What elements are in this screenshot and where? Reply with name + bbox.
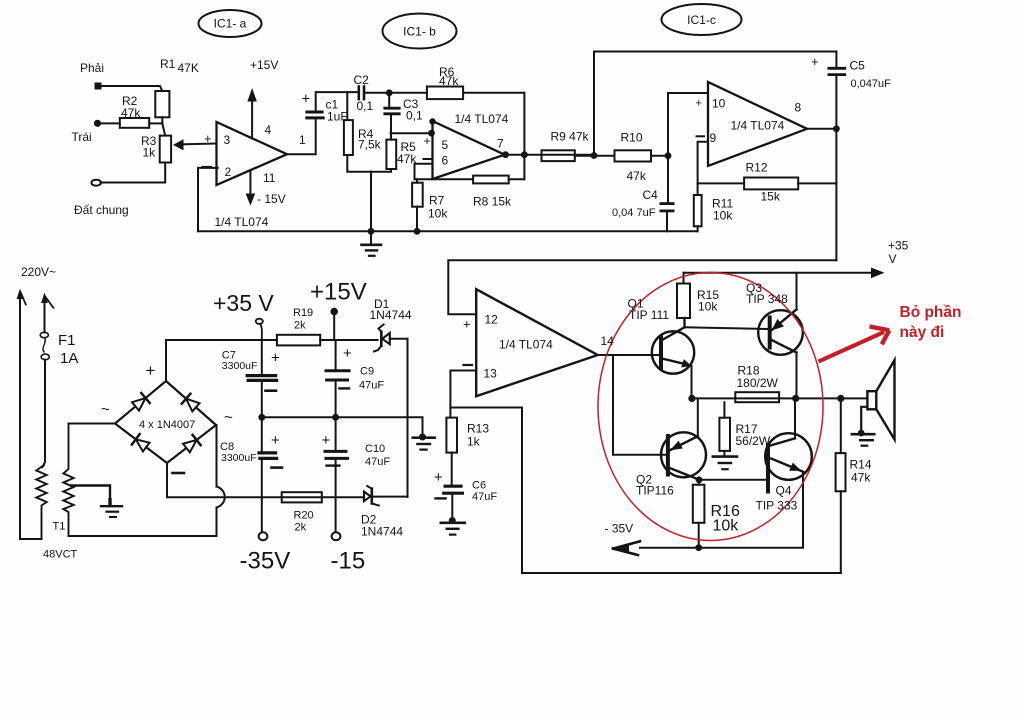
svg-text:10k: 10k <box>713 209 733 223</box>
svg-text:+: + <box>271 350 280 367</box>
svg-text:V: V <box>889 252 897 266</box>
svg-text:48VCT: 48VCT <box>43 549 78 561</box>
svg-text:180/2W: 180/2W <box>737 376 779 390</box>
svg-text:R1: R1 <box>160 57 176 71</box>
svg-text:T1: T1 <box>53 521 66 533</box>
svg-text:47uF: 47uF <box>472 491 497 503</box>
svg-text:10k: 10k <box>428 207 448 221</box>
svg-text:12: 12 <box>485 313 499 327</box>
svg-text:-35V: -35V <box>240 548 291 575</box>
svg-text:4: 4 <box>265 123 272 137</box>
svg-text:+: + <box>463 317 471 332</box>
svg-text:4 x 1N4007: 4 x 1N4007 <box>139 419 195 431</box>
svg-text:6: 6 <box>442 154 449 168</box>
svg-text:3: 3 <box>224 133 231 147</box>
svg-text:C9: C9 <box>360 366 374 378</box>
svg-text:- 35V: - 35V <box>605 522 634 536</box>
svg-text:47uF: 47uF <box>365 456 390 468</box>
svg-text:11: 11 <box>263 171 276 185</box>
svg-text:R20: R20 <box>294 510 314 522</box>
svg-text:1uF: 1uF <box>327 110 348 124</box>
svg-text:1k: 1k <box>467 435 481 449</box>
svg-text:9: 9 <box>710 131 717 145</box>
svg-text:1/4 TL074: 1/4 TL074 <box>215 215 269 229</box>
svg-text:Bỏ phần: Bỏ phần <box>900 304 962 321</box>
svg-text:R9 47k: R9 47k <box>551 130 590 144</box>
svg-text:-15: -15 <box>331 548 366 575</box>
svg-text:1A: 1A <box>60 350 78 367</box>
svg-text:13: 13 <box>484 367 498 381</box>
svg-text:TIP 333: TIP 333 <box>756 499 798 513</box>
svg-text:10k: 10k <box>698 300 718 314</box>
svg-text:IC1- b: IC1- b <box>403 25 436 39</box>
svg-text:+: + <box>322 432 331 449</box>
svg-text:+: + <box>204 131 212 146</box>
svg-text:47k: 47k <box>121 106 141 120</box>
svg-text:1/4 TL074: 1/4 TL074 <box>499 338 553 352</box>
svg-text:C6: C6 <box>472 480 486 492</box>
svg-text:C5: C5 <box>850 59 866 73</box>
svg-text:14: 14 <box>601 334 615 348</box>
svg-text:2: 2 <box>225 165 232 179</box>
svg-text:R12: R12 <box>746 161 768 175</box>
svg-text:C4: C4 <box>643 188 659 202</box>
svg-text:56/2W: 56/2W <box>736 434 771 448</box>
svg-text:+: + <box>302 91 311 108</box>
svg-text:7: 7 <box>497 137 504 151</box>
svg-text:1N4744: 1N4744 <box>361 525 403 539</box>
svg-text:C2: C2 <box>354 73 370 87</box>
svg-text:2k: 2k <box>295 522 307 534</box>
svg-text:F1: F1 <box>58 332 76 349</box>
svg-text:Phải: Phải <box>80 61 104 75</box>
svg-text:0,1: 0,1 <box>357 99 374 113</box>
svg-text:Trái: Trái <box>72 130 92 144</box>
svg-text:IC1-c: IC1-c <box>687 13 716 27</box>
svg-text:47k: 47k <box>439 74 459 88</box>
svg-text:R13: R13 <box>467 422 489 436</box>
svg-text:+: + <box>271 432 280 449</box>
svg-text:R19: R19 <box>293 307 313 319</box>
svg-text:8: 8 <box>795 101 802 115</box>
svg-text:+35 V: +35 V <box>213 290 274 316</box>
svg-text:3300uF: 3300uF <box>222 360 258 372</box>
svg-text:2k: 2k <box>294 320 306 332</box>
svg-text:+: + <box>434 469 443 486</box>
svg-text:47K: 47K <box>178 61 199 75</box>
svg-text:R8 15k: R8 15k <box>473 195 512 209</box>
svg-text:47k: 47k <box>851 471 871 485</box>
svg-text:15k: 15k <box>761 190 781 204</box>
svg-text:này đi: này đi <box>900 324 945 341</box>
svg-text:~: ~ <box>101 401 110 418</box>
svg-text:Đất chung: Đất chung <box>74 203 129 217</box>
svg-text:C10: C10 <box>365 443 385 455</box>
svg-text:1/4 TL074: 1/4 TL074 <box>455 112 509 126</box>
svg-text:TIP 348: TIP 348 <box>746 292 788 306</box>
svg-text:TIP116: TIP116 <box>636 484 674 498</box>
svg-text:~: ~ <box>224 409 233 426</box>
svg-text:0,04 7uF: 0,04 7uF <box>612 207 656 219</box>
svg-text:+: + <box>696 98 702 110</box>
svg-text:+: + <box>343 345 352 362</box>
svg-text:7,5k: 7,5k <box>358 138 382 152</box>
svg-text:+: + <box>146 361 156 380</box>
svg-text:+35: +35 <box>888 239 909 253</box>
svg-text:0,047uF: 0,047uF <box>851 78 892 90</box>
svg-text:+: + <box>811 54 819 69</box>
svg-text:1k: 1k <box>143 146 157 160</box>
svg-text:R14: R14 <box>850 458 872 472</box>
svg-text:47k: 47k <box>397 152 417 166</box>
svg-text:10: 10 <box>712 97 726 111</box>
svg-text:47uF: 47uF <box>359 380 384 392</box>
svg-text:1/4 TL074: 1/4 TL074 <box>731 119 785 133</box>
svg-text:10k: 10k <box>713 518 740 535</box>
svg-text:1: 1 <box>299 133 306 147</box>
svg-text:+: + <box>424 134 431 148</box>
svg-text:0,1: 0,1 <box>406 109 423 123</box>
svg-text:+15V: +15V <box>250 58 278 72</box>
svg-text:220V~: 220V~ <box>21 265 56 279</box>
svg-text:47k: 47k <box>627 169 647 183</box>
svg-text:+15V: +15V <box>310 279 367 306</box>
svg-text:- 15V: - 15V <box>257 192 286 206</box>
svg-text:R10: R10 <box>621 131 643 145</box>
svg-text:1N4744: 1N4744 <box>370 308 412 322</box>
svg-text:R7: R7 <box>429 194 445 208</box>
svg-text:IC1- a: IC1- a <box>214 17 247 31</box>
svg-text:5: 5 <box>442 138 449 152</box>
svg-text:3300uF: 3300uF <box>221 452 257 464</box>
svg-text:Q4: Q4 <box>776 484 792 498</box>
svg-text:TIP 111: TIP 111 <box>629 308 669 322</box>
